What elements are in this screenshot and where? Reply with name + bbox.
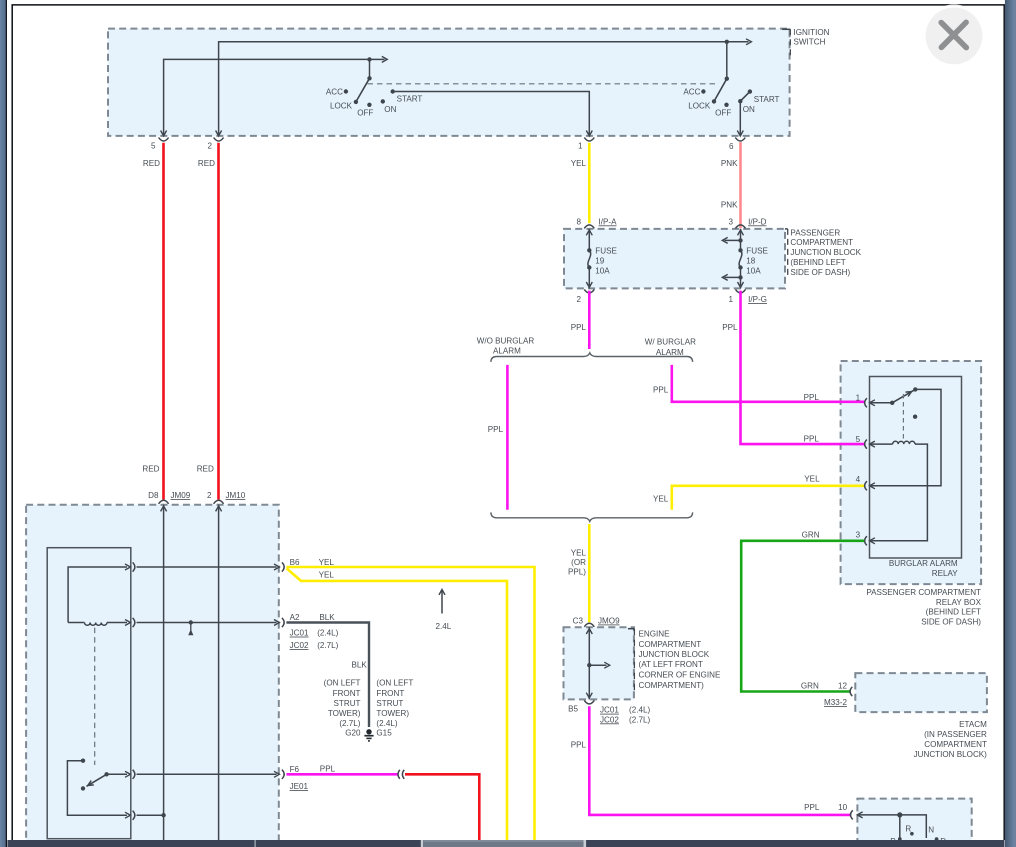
ECJB label xyxy=(628,628,634,630)
pin 2 JM10 xyxy=(214,500,224,504)
svg-text:(BEHIND LEFT: (BEHIND LEFT xyxy=(790,258,845,267)
svg-text:(OR: (OR xyxy=(571,558,586,567)
svg-text:GRN: GRN xyxy=(802,531,820,540)
burglar alarm relay box (passenger compartment relay box) xyxy=(841,361,982,584)
svg-text:I/P-A: I/P-A xyxy=(599,217,618,226)
svg-text:PNK: PNK xyxy=(721,200,738,209)
svg-text:START: START xyxy=(754,95,780,104)
svg-text:4: 4 xyxy=(856,475,861,484)
svg-text:FRONT: FRONT xyxy=(376,689,404,698)
svg-text:ALARM: ALARM xyxy=(493,347,521,356)
svg-text:JC02: JC02 xyxy=(600,715,619,724)
pin 8 I/P-A xyxy=(584,225,594,229)
svg-text:SIDE OF DASH): SIDE OF DASH) xyxy=(790,268,850,277)
svg-text:PNK: PNK xyxy=(721,159,738,168)
wire RED to bottom xyxy=(405,774,479,841)
contact OFF (left pole) xyxy=(367,103,371,107)
brace merge lower xyxy=(491,512,693,521)
wire: ON contact to pin 6 xyxy=(739,101,741,136)
wire YEL B6 outer xyxy=(286,567,534,841)
ignition switch pole 2 (right) xyxy=(725,40,729,44)
svg-text:PPL: PPL xyxy=(320,764,336,773)
key switch inner body xyxy=(47,548,131,839)
coil (key-in warning) xyxy=(68,622,84,624)
svg-text:JMO9: JMO9 xyxy=(598,617,620,626)
wire: ignition feed lower rail xyxy=(164,59,370,135)
right scrollbar track xyxy=(1005,0,1016,847)
svg-text:COMPARTMENT: COMPARTMENT xyxy=(639,640,702,649)
contact START (left pole) xyxy=(391,89,395,93)
svg-text:(2.7L): (2.7L) xyxy=(317,641,338,650)
svg-text:JUNCTION BLOCK): JUNCTION BLOCK) xyxy=(914,750,988,759)
svg-text:COMPARTMENT: COMPARTMENT xyxy=(924,740,987,749)
pin 1 I/P-G xyxy=(736,289,746,293)
svg-text:2: 2 xyxy=(207,491,212,500)
svg-text:BLK: BLK xyxy=(351,660,367,669)
ETACM pin 12 connector xyxy=(850,687,852,696)
svg-text:12: 12 xyxy=(838,682,848,691)
relay NO contact xyxy=(913,415,917,419)
wire GRN relay pin3 to ETACM xyxy=(741,541,864,692)
svg-text:F6: F6 xyxy=(290,765,300,774)
svg-text:JM09: JM09 xyxy=(171,491,191,500)
svg-text:(BEHIND LEFT: (BEHIND LEFT xyxy=(926,608,981,617)
relay coil xyxy=(870,443,893,445)
svg-text:CORNER OF ENGINE: CORNER OF ENGINE xyxy=(639,671,721,680)
svg-text:STRUT: STRUT xyxy=(334,699,361,708)
svg-text:STRUT: STRUT xyxy=(376,699,403,708)
wire PPL w/ branch to relay pin 1 xyxy=(672,365,865,402)
svg-text:FUSE: FUSE xyxy=(595,246,617,255)
ground G15/G20 xyxy=(366,729,371,734)
svg-text:YEL: YEL xyxy=(804,475,820,484)
wire YEL B6 inner xyxy=(287,568,507,841)
svg-text:M33-2: M33-2 xyxy=(824,698,847,707)
svg-text:PPL: PPL xyxy=(488,425,504,434)
svg-text:ON: ON xyxy=(384,105,396,114)
svg-text:3: 3 xyxy=(856,530,861,539)
mechanical link dashed (key switch) xyxy=(94,628,96,765)
svg-text:BLK: BLK xyxy=(319,613,335,622)
ECJB internal wire xyxy=(588,627,590,699)
svg-text:G20: G20 xyxy=(345,728,361,737)
svg-text:8: 8 xyxy=(576,217,581,226)
svg-text:RED: RED xyxy=(143,159,160,168)
svg-text:SIDE OF DASH): SIDE OF DASH) xyxy=(921,617,981,626)
contact ACC (left pole) xyxy=(344,89,348,93)
svg-text:(2.4L): (2.4L) xyxy=(629,706,650,715)
svg-text:D8: D8 xyxy=(148,491,159,500)
junction stub on A2 wire xyxy=(189,620,193,624)
ignition switch box xyxy=(108,29,790,136)
relay top rail to pin 4 xyxy=(870,389,942,485)
left scrollbar track xyxy=(0,0,6,847)
svg-text:TOWER): TOWER) xyxy=(328,709,361,718)
svg-text:C3: C3 xyxy=(573,617,584,626)
wire PPL F6 xyxy=(286,773,397,776)
svg-text:I/P-D: I/P-D xyxy=(748,217,767,226)
svg-text:BURGLAR ALARM: BURGLAR ALARM xyxy=(889,559,958,568)
svg-text:LOCK: LOCK xyxy=(688,102,711,111)
svg-text:A2: A2 xyxy=(290,613,300,622)
key box vertical 2 xyxy=(218,505,220,841)
pin 3 I/P-D xyxy=(736,225,746,229)
svg-text:PPL: PPL xyxy=(722,323,738,332)
relay inner box xyxy=(870,377,962,559)
contact OFF (right pole) xyxy=(724,103,728,107)
svg-text:COMPARTMENT): COMPARTMENT) xyxy=(639,681,705,690)
svg-text:JC02: JC02 xyxy=(290,641,309,650)
svg-text:PPL): PPL) xyxy=(568,568,586,577)
wire YEL relay pin 4 to brace xyxy=(672,486,865,510)
svg-text:ENGINE: ENGINE xyxy=(639,629,671,638)
svg-text:1: 1 xyxy=(856,394,861,403)
wire PPL pin2 to brace xyxy=(588,291,591,349)
blade ON-START (right pole) xyxy=(740,92,750,102)
passenger compartment junction block box xyxy=(564,229,785,289)
svg-text:B5: B5 xyxy=(568,704,578,713)
svg-text:ON: ON xyxy=(743,105,755,114)
pin B5 JC01/JC02 xyxy=(584,700,594,704)
wire PPL w/o branch xyxy=(506,365,509,510)
svg-text:1: 1 xyxy=(728,295,733,304)
svg-text:(2.7L): (2.7L) xyxy=(629,715,650,724)
svg-text:R: R xyxy=(905,825,911,834)
svg-text:PASSENGER: PASSENGER xyxy=(790,228,840,237)
svg-text:I/P-G: I/P-G xyxy=(748,295,767,304)
svg-text:(AT LEFT FRONT: (AT LEFT FRONT xyxy=(639,660,703,669)
engine compartment junction block box xyxy=(564,627,634,699)
svg-text:PPL: PPL xyxy=(804,434,820,443)
fuse 18 10A xyxy=(740,229,742,250)
wire BLK to ground xyxy=(286,623,369,728)
contact ACC (right pole) xyxy=(701,89,705,93)
wire: ignition feed upper rail xyxy=(219,42,727,136)
svg-text:YEL: YEL xyxy=(653,495,669,504)
svg-text:PPL: PPL xyxy=(804,393,820,402)
svg-text:TOWER): TOWER) xyxy=(376,709,409,718)
svg-text:GRN: GRN xyxy=(801,682,819,691)
pin 2 (junction block) xyxy=(584,289,594,293)
2.4L arrow note xyxy=(441,591,443,614)
mechanical link dashed (ignition switch) xyxy=(368,83,720,85)
svg-text:W/ BURGLAR: W/ BURGLAR xyxy=(645,338,696,347)
svg-text:N: N xyxy=(928,825,934,834)
svg-text:YEL: YEL xyxy=(319,571,335,580)
wire PPL B5 to pin 10 xyxy=(589,706,851,815)
svg-text:10: 10 xyxy=(838,803,848,812)
svg-text:(2.4L): (2.4L) xyxy=(317,629,338,638)
svg-text:IGNITION: IGNITION xyxy=(794,28,830,37)
svg-text:COMPARTMENT: COMPARTMENT xyxy=(790,238,853,247)
fuse 19 10A xyxy=(588,229,590,250)
relay link dashed xyxy=(902,394,904,442)
svg-text:RED: RED xyxy=(198,159,215,168)
key switch assembly box (bottom left) xyxy=(26,505,279,847)
svg-text:YEL: YEL xyxy=(571,159,587,168)
relay switch xyxy=(870,402,893,404)
svg-text:10A: 10A xyxy=(746,267,761,276)
svg-text:YEL: YEL xyxy=(571,548,587,557)
svg-text:(2.4L): (2.4L) xyxy=(376,719,397,728)
svg-text:RELAY: RELAY xyxy=(932,569,959,578)
IGNITION SWITCH label xyxy=(782,28,790,30)
svg-text:PPL: PPL xyxy=(804,803,820,812)
svg-text:2.4L: 2.4L xyxy=(436,622,452,631)
wire YEL pin1 xyxy=(588,143,591,224)
svg-text:18: 18 xyxy=(746,257,756,266)
svg-text:LOCK: LOCK xyxy=(330,102,353,111)
svg-text:JC01: JC01 xyxy=(290,629,309,638)
contact ON (left pole) xyxy=(381,99,385,103)
svg-text:JM10: JM10 xyxy=(226,491,246,500)
ETACM box xyxy=(855,673,987,712)
svg-text:5: 5 xyxy=(856,435,861,444)
svg-text:OFF: OFF xyxy=(357,109,373,118)
loop wire B6 row xyxy=(68,567,127,623)
wire RED pin2 xyxy=(217,143,220,500)
svg-text:START: START xyxy=(397,95,423,104)
svg-text:OFF: OFF xyxy=(715,109,731,118)
svg-text:PPL: PPL xyxy=(571,740,587,749)
contact ON (right pole) xyxy=(738,99,742,103)
svg-text:ALARM: ALARM xyxy=(656,348,684,357)
inline connector xyxy=(398,770,400,779)
svg-text:2: 2 xyxy=(576,295,581,304)
svg-text:W/O BURGLAR: W/O BURGLAR xyxy=(477,337,535,346)
svg-text:2: 2 xyxy=(207,142,212,151)
wire RED pin5 xyxy=(162,143,165,500)
svg-text:(ON LEFT: (ON LEFT xyxy=(324,679,361,688)
junction block label xyxy=(785,228,788,230)
svg-text:(IN PASSENGER: (IN PASSENGER xyxy=(924,730,987,739)
svg-text:PPL: PPL xyxy=(571,323,587,332)
svg-text:ETACM: ETACM xyxy=(959,720,987,729)
svg-text:JUNCTION BLOCK: JUNCTION BLOCK xyxy=(639,650,710,659)
svg-text:10A: 10A xyxy=(595,267,610,276)
svg-text:JE01: JE01 xyxy=(290,782,309,791)
svg-text:(2.7L): (2.7L) xyxy=(339,719,360,728)
fuse 18 tap arrows xyxy=(738,238,742,242)
svg-text:SWITCH: SWITCH xyxy=(794,38,826,47)
svg-text:RED: RED xyxy=(197,465,214,474)
svg-text:3: 3 xyxy=(728,217,733,226)
pin D8 JM09 xyxy=(159,500,169,504)
brace split w/o-w/ burglar alarm xyxy=(491,353,693,362)
pin 2 (ignition switch) xyxy=(216,131,222,136)
svg-text:ACC: ACC xyxy=(326,88,343,97)
wire YEL below merge xyxy=(588,524,591,622)
svg-text:6: 6 xyxy=(729,142,734,151)
svg-text:19: 19 xyxy=(595,257,605,266)
key box vertical 1 xyxy=(163,505,165,841)
svg-text:ACC: ACC xyxy=(683,88,700,97)
svg-text:(ON LEFT: (ON LEFT xyxy=(376,679,413,688)
svg-text:JUNCTION BLOCK: JUNCTION BLOCK xyxy=(790,248,861,257)
pin 6 (ignition switch) xyxy=(737,131,743,136)
svg-text:1: 1 xyxy=(578,142,583,151)
pin 5 (ignition switch) xyxy=(161,131,167,136)
key switch contacts xyxy=(81,759,85,763)
transmission range switch box (bottom right) xyxy=(857,799,971,847)
pin C3 JMO9 xyxy=(584,623,594,627)
svg-text:PPL: PPL xyxy=(653,386,669,395)
close button xyxy=(923,4,986,67)
contact START (right pole) xyxy=(748,89,752,93)
TRS internal wires xyxy=(857,815,926,838)
svg-text:G15: G15 xyxy=(376,728,392,737)
svg-text:PASSENGER COMPARTMENT: PASSENGER COMPARTMENT xyxy=(866,588,981,597)
pin 1 (ignition switch) xyxy=(586,131,592,136)
relay coil out to pin 3 xyxy=(870,444,928,541)
svg-text:5: 5 xyxy=(151,142,156,151)
wire PPL I/P-G to relay pin 5 xyxy=(741,291,865,445)
svg-text:FUSE: FUSE xyxy=(746,246,768,255)
svg-text:JC01: JC01 xyxy=(600,706,619,715)
svg-text:FRONT: FRONT xyxy=(333,689,361,698)
ignition switch pole 1 (left) xyxy=(367,57,371,61)
wire: START contact to pin 1 xyxy=(393,92,590,136)
svg-text:RELAY BOX: RELAY BOX xyxy=(936,598,982,607)
bottom scrollbar xyxy=(7,840,1004,847)
wire PNK pin6 xyxy=(739,142,742,228)
F6 row xyxy=(107,773,127,775)
svg-text:RED: RED xyxy=(142,465,159,474)
